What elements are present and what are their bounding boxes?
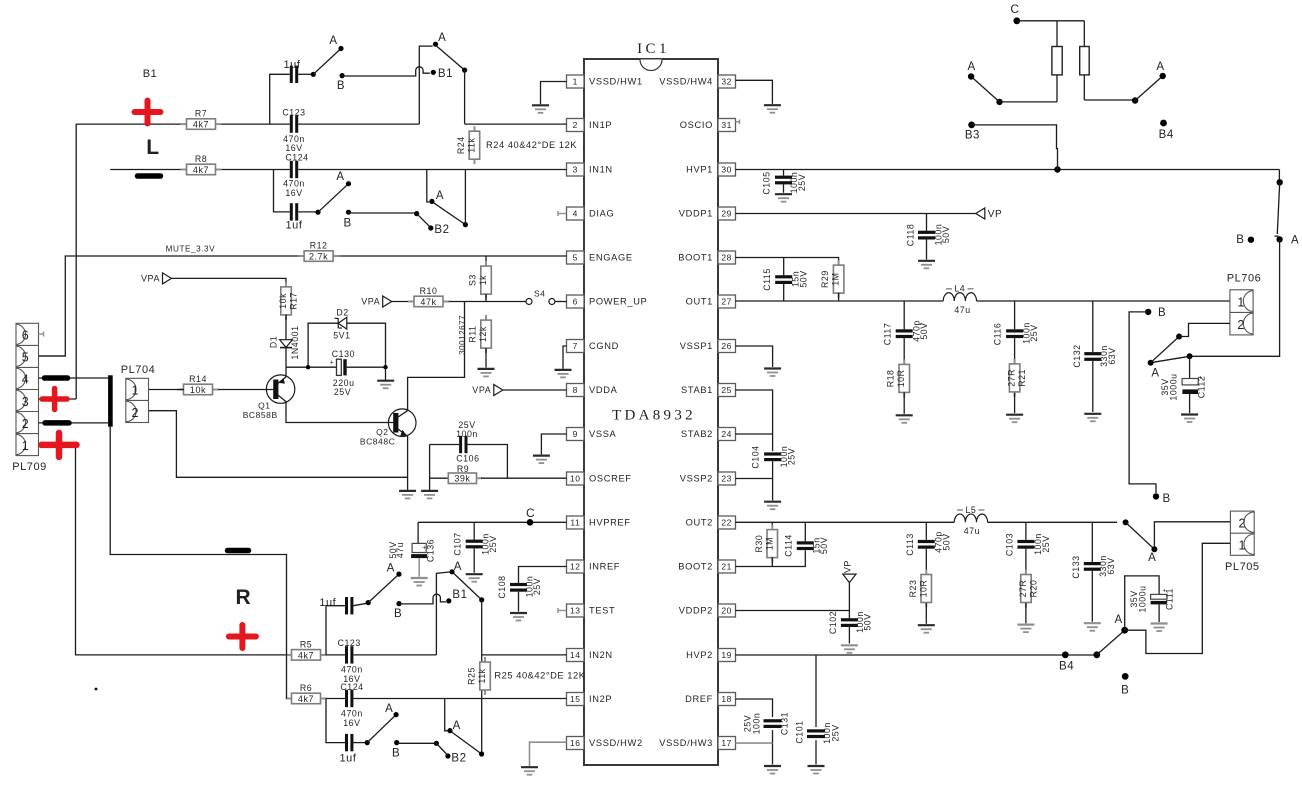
svg-text:25V: 25V: [787, 448, 797, 465]
svg-text:1M: 1M: [764, 537, 774, 550]
svg-text:R21: R21: [1017, 369, 1027, 387]
svg-text:47k: 47k: [420, 297, 436, 307]
svg-text:B4: B4: [1059, 661, 1074, 673]
svg-text:16V: 16V: [343, 718, 360, 728]
svg-text:B: B: [1236, 234, 1244, 246]
svg-text:HVP2: HVP2: [686, 650, 713, 660]
svg-text:B2: B2: [451, 753, 466, 765]
svg-text:27R: 27R: [1018, 580, 1028, 598]
svg-text:4: 4: [573, 209, 578, 219]
svg-text:BC848C: BC848C: [360, 437, 395, 447]
svg-text:C112: C112: [1197, 376, 1207, 399]
svg-text:TEST: TEST: [589, 606, 615, 616]
svg-text:10R: 10R: [918, 580, 928, 598]
svg-text:Q1: Q1: [258, 401, 270, 411]
svg-text:16V: 16V: [285, 143, 302, 153]
svg-text:2: 2: [132, 406, 140, 420]
svg-text:47u: 47u: [395, 542, 405, 558]
svg-text:25V: 25V: [797, 174, 807, 191]
svg-text:C115: C115: [762, 268, 772, 291]
svg-text:16V: 16V: [285, 188, 302, 198]
svg-text:1N4001: 1N4001: [290, 325, 300, 359]
svg-text:B: B: [1163, 493, 1171, 505]
svg-text:26: 26: [721, 341, 732, 351]
svg-text:+: +: [330, 360, 335, 367]
svg-text:1: 1: [132, 384, 140, 398]
svg-text:1M: 1M: [831, 272, 841, 285]
svg-text:25V: 25V: [1041, 535, 1051, 552]
svg-text:C102: C102: [828, 611, 838, 634]
svg-text:C133: C133: [1071, 555, 1081, 578]
svg-text:B1: B1: [452, 589, 467, 601]
svg-text:HVP1: HVP1: [686, 165, 713, 175]
svg-text:5: 5: [22, 351, 30, 365]
svg-text:PL709: PL709: [12, 461, 47, 473]
svg-text:C101: C101: [795, 720, 805, 743]
svg-text:11k: 11k: [467, 138, 477, 153]
svg-text:50V: 50V: [863, 613, 873, 630]
svg-text:C104: C104: [751, 445, 761, 468]
svg-text:BOOT1: BOOT1: [678, 253, 713, 263]
svg-text:VPA: VPA: [361, 297, 380, 307]
svg-text:5: 5: [573, 253, 578, 263]
svg-text:10: 10: [570, 474, 581, 484]
svg-text:30012677: 30012677: [458, 315, 467, 355]
svg-text:S4: S4: [534, 289, 546, 299]
svg-text:63V: 63V: [1106, 557, 1116, 574]
svg-text:R24 40&42°DE 12K: R24 40&42°DE 12K: [486, 140, 577, 150]
svg-text:25V: 25V: [1029, 324, 1039, 341]
svg-text:VPA: VPA: [472, 385, 491, 395]
svg-text:A: A: [453, 720, 461, 732]
svg-text:VSSD/HW2: VSSD/HW2: [589, 738, 643, 748]
svg-text:VSSA: VSSA: [589, 429, 617, 439]
svg-text:MUTE_3.3V: MUTE_3.3V: [166, 245, 216, 254]
svg-text:DREF: DREF: [685, 694, 713, 704]
svg-text:OUT2: OUT2: [686, 518, 713, 528]
svg-text:A: A: [385, 703, 393, 715]
svg-text:C136: C136: [426, 539, 436, 562]
svg-text:2: 2: [22, 417, 30, 431]
svg-text:C108: C108: [497, 575, 507, 598]
svg-text:15: 15: [570, 694, 581, 704]
svg-text:3: 3: [22, 395, 30, 409]
svg-text:R8: R8: [195, 154, 207, 164]
svg-text:POWER_UP: POWER_UP: [589, 297, 647, 307]
svg-text:10R: 10R: [896, 370, 906, 388]
svg-text:13: 13: [570, 606, 581, 616]
svg-text:C103: C103: [1004, 533, 1014, 556]
svg-text:STAB1: STAB1: [681, 385, 713, 395]
svg-text:5V1: 5V1: [333, 331, 350, 341]
svg-text:C124: C124: [285, 153, 308, 163]
svg-text:8: 8: [573, 385, 578, 395]
svg-text:1k: 1k: [478, 275, 488, 285]
svg-text:R10: R10: [420, 286, 438, 296]
svg-text:C105: C105: [761, 171, 771, 194]
svg-text:HVPREF: HVPREF: [589, 518, 631, 528]
svg-text:VSSP2: VSSP2: [680, 474, 713, 484]
svg-text:10k: 10k: [278, 293, 288, 309]
svg-text:6: 6: [573, 297, 578, 307]
svg-text:A: A: [454, 561, 462, 573]
svg-text:R29: R29: [820, 270, 830, 288]
svg-text:R11: R11: [468, 326, 478, 343]
svg-text:R25: R25: [467, 667, 477, 685]
svg-text:C107: C107: [453, 532, 463, 555]
svg-text:4k7: 4k7: [193, 165, 209, 175]
svg-text:2: 2: [1238, 516, 1246, 530]
svg-text:50V: 50V: [941, 226, 951, 243]
svg-text:A: A: [1151, 368, 1159, 380]
svg-text:50V: 50V: [799, 270, 809, 287]
svg-text:VP: VP: [988, 209, 1002, 220]
svg-text:B1: B1: [438, 68, 453, 80]
svg-text:CGND: CGND: [589, 341, 619, 351]
svg-text:VPA: VPA: [141, 273, 160, 283]
svg-text:C130: C130: [332, 349, 355, 359]
svg-text:B4: B4: [1159, 129, 1174, 141]
svg-text:1000u: 1000u: [1138, 585, 1148, 612]
svg-text:L: L: [146, 136, 159, 159]
svg-text:1uf: 1uf: [286, 220, 303, 232]
svg-text:100n: 100n: [751, 713, 761, 735]
svg-text:C106: C106: [456, 454, 479, 464]
svg-text:1uf: 1uf: [340, 753, 357, 765]
svg-text:A: A: [336, 171, 344, 183]
svg-text:R23: R23: [908, 580, 918, 598]
svg-text:BOOT2: BOOT2: [678, 562, 713, 572]
svg-text:11k: 11k: [477, 668, 487, 683]
svg-text:1: 1: [22, 439, 30, 453]
svg-text:23: 23: [721, 474, 732, 484]
svg-text:1uf: 1uf: [319, 597, 336, 609]
svg-text:32: 32: [721, 77, 732, 87]
svg-text:PL704: PL704: [121, 364, 156, 376]
svg-text:IN1N: IN1N: [589, 165, 613, 175]
svg-text:VSSD/HW3: VSSD/HW3: [659, 738, 713, 748]
svg-text:27R: 27R: [1007, 369, 1017, 387]
svg-text:C114: C114: [784, 534, 794, 557]
svg-text:29: 29: [721, 209, 732, 219]
svg-text:L5: L5: [965, 505, 976, 515]
svg-text:1uf: 1uf: [284, 59, 301, 71]
svg-text:C: C: [1010, 2, 1019, 16]
svg-text:R30: R30: [754, 535, 764, 553]
svg-text:B1: B1: [143, 68, 158, 80]
svg-text:19: 19: [721, 650, 732, 660]
svg-text:R5: R5: [300, 639, 312, 649]
svg-text:A: A: [329, 35, 337, 47]
svg-text:22: 22: [721, 518, 732, 528]
svg-text:2.7k: 2.7k: [309, 251, 328, 261]
svg-text:B: B: [394, 608, 402, 620]
svg-text:7: 7: [573, 341, 578, 351]
svg-text:PL705: PL705: [1225, 561, 1260, 573]
svg-text:31: 31: [721, 120, 732, 130]
svg-text:C123: C123: [338, 638, 361, 648]
svg-text:R14: R14: [189, 374, 207, 384]
svg-text:R17: R17: [289, 292, 299, 310]
svg-text:50V: 50V: [819, 537, 829, 554]
svg-text:21: 21: [721, 562, 732, 572]
svg-text:C116: C116: [993, 323, 1003, 346]
svg-text:R6: R6: [300, 683, 312, 693]
svg-text:B3: B3: [965, 130, 980, 142]
svg-text:C117: C117: [882, 323, 892, 346]
svg-text:30: 30: [721, 165, 732, 175]
svg-text:10k: 10k: [190, 385, 206, 395]
svg-text:INREF: INREF: [589, 562, 620, 572]
svg-text:DIAG: DIAG: [589, 209, 614, 219]
svg-text:4: 4: [22, 373, 30, 387]
svg-text:25V: 25V: [830, 724, 840, 741]
svg-text:12k: 12k: [478, 326, 488, 342]
svg-text:R: R: [236, 586, 252, 609]
svg-text:1: 1: [1238, 539, 1246, 553]
svg-text:C124: C124: [340, 682, 363, 692]
svg-text:28: 28: [721, 253, 732, 263]
svg-text:C123: C123: [282, 108, 305, 118]
svg-text:63V: 63V: [1107, 347, 1117, 364]
svg-text:4k7: 4k7: [298, 650, 314, 660]
svg-text:S3: S3: [468, 274, 478, 286]
svg-text:PL706: PL706: [1227, 273, 1262, 285]
svg-text:IN1P: IN1P: [589, 120, 612, 130]
svg-text:2: 2: [573, 120, 578, 130]
svg-text:470n: 470n: [341, 709, 363, 719]
svg-text:25V: 25V: [488, 535, 498, 552]
svg-text:18: 18: [721, 694, 732, 704]
svg-text:IN2N: IN2N: [589, 650, 613, 660]
svg-text:20: 20: [721, 606, 732, 616]
svg-text:VSSP1: VSSP1: [680, 341, 713, 351]
svg-text:39k: 39k: [454, 474, 470, 484]
svg-text:B: B: [392, 748, 400, 760]
svg-text:A: A: [436, 190, 444, 202]
svg-text:A: A: [387, 563, 395, 575]
svg-text:IN2P: IN2P: [589, 694, 612, 704]
svg-text:C113: C113: [905, 533, 915, 556]
svg-text:TDA8932: TDA8932: [612, 408, 696, 424]
svg-text:OSCIO: OSCIO: [680, 120, 713, 130]
svg-text:A: A: [967, 61, 975, 73]
svg-text:4k7: 4k7: [298, 694, 314, 704]
svg-text:16: 16: [570, 738, 581, 748]
svg-text:9: 9: [573, 429, 578, 439]
svg-text:24: 24: [721, 429, 732, 439]
svg-text:50V: 50V: [919, 322, 929, 339]
svg-text:D2: D2: [336, 308, 348, 318]
svg-text:3: 3: [573, 165, 578, 175]
svg-text:25V: 25V: [334, 387, 351, 397]
svg-text:17: 17: [721, 738, 732, 748]
svg-text:R18: R18: [886, 370, 896, 388]
svg-text:11: 11: [570, 518, 580, 528]
svg-text:B: B: [337, 80, 345, 92]
svg-text:R24: R24: [456, 136, 466, 154]
svg-text:R20: R20: [1028, 580, 1038, 598]
svg-text:C111: C111: [1164, 588, 1174, 610]
svg-text:OSCREF: OSCREF: [589, 474, 632, 484]
svg-text:C118: C118: [905, 224, 915, 247]
svg-text:STAB2: STAB2: [681, 429, 713, 439]
svg-text:27: 27: [721, 297, 732, 307]
svg-text:2: 2: [1237, 318, 1245, 332]
svg-text:IC1: IC1: [637, 41, 670, 57]
svg-text:1: 1: [573, 77, 578, 87]
svg-text:R7: R7: [195, 109, 207, 119]
svg-text:OUT1: OUT1: [686, 297, 713, 307]
svg-text:BC858B: BC858B: [243, 410, 278, 420]
svg-text:A: A: [438, 32, 446, 44]
svg-text:B: B: [1158, 307, 1166, 319]
svg-text:1: 1: [1237, 295, 1245, 309]
svg-text:VDDP2: VDDP2: [679, 606, 713, 616]
svg-text:B2: B2: [434, 224, 449, 236]
svg-text:12: 12: [570, 562, 581, 572]
svg-text:B: B: [1121, 685, 1129, 697]
svg-text:4k7: 4k7: [193, 120, 209, 130]
svg-text:C: C: [526, 506, 535, 520]
svg-text:A: A: [1114, 614, 1122, 626]
svg-text:6: 6: [22, 329, 30, 343]
svg-text:47u: 47u: [964, 526, 980, 536]
svg-text:25V: 25V: [532, 578, 542, 595]
svg-text:Q2: Q2: [376, 427, 388, 437]
svg-text:C131: C131: [779, 712, 789, 735]
svg-text:ENGAGE: ENGAGE: [589, 253, 633, 263]
svg-text:1000u: 1000u: [1168, 373, 1178, 400]
svg-text:VSSD/HW1: VSSD/HW1: [589, 77, 643, 87]
svg-text:B: B: [343, 218, 351, 230]
svg-text:A: A: [1291, 235, 1299, 247]
svg-text:470n: 470n: [283, 179, 305, 189]
svg-text:VDDA: VDDA: [589, 385, 618, 395]
svg-text:A: A: [1148, 552, 1156, 564]
svg-text:14: 14: [570, 650, 581, 660]
svg-text:D1: D1: [269, 336, 279, 348]
svg-text:R25 40&42°DE 12K: R25 40&42°DE 12K: [494, 671, 585, 681]
svg-text:VDDP1: VDDP1: [679, 209, 713, 219]
svg-text:VSSD/HW4: VSSD/HW4: [659, 77, 713, 87]
svg-text:47u: 47u: [954, 305, 970, 315]
svg-text:470n: 470n: [341, 665, 363, 675]
svg-text:25: 25: [721, 385, 732, 395]
svg-text:VP: VP: [842, 560, 852, 573]
svg-text:L4: L4: [954, 284, 965, 294]
svg-text:A: A: [1156, 61, 1164, 73]
svg-text:C132: C132: [1072, 344, 1082, 367]
svg-text:R12: R12: [310, 241, 328, 251]
svg-text:50V: 50V: [941, 533, 951, 550]
